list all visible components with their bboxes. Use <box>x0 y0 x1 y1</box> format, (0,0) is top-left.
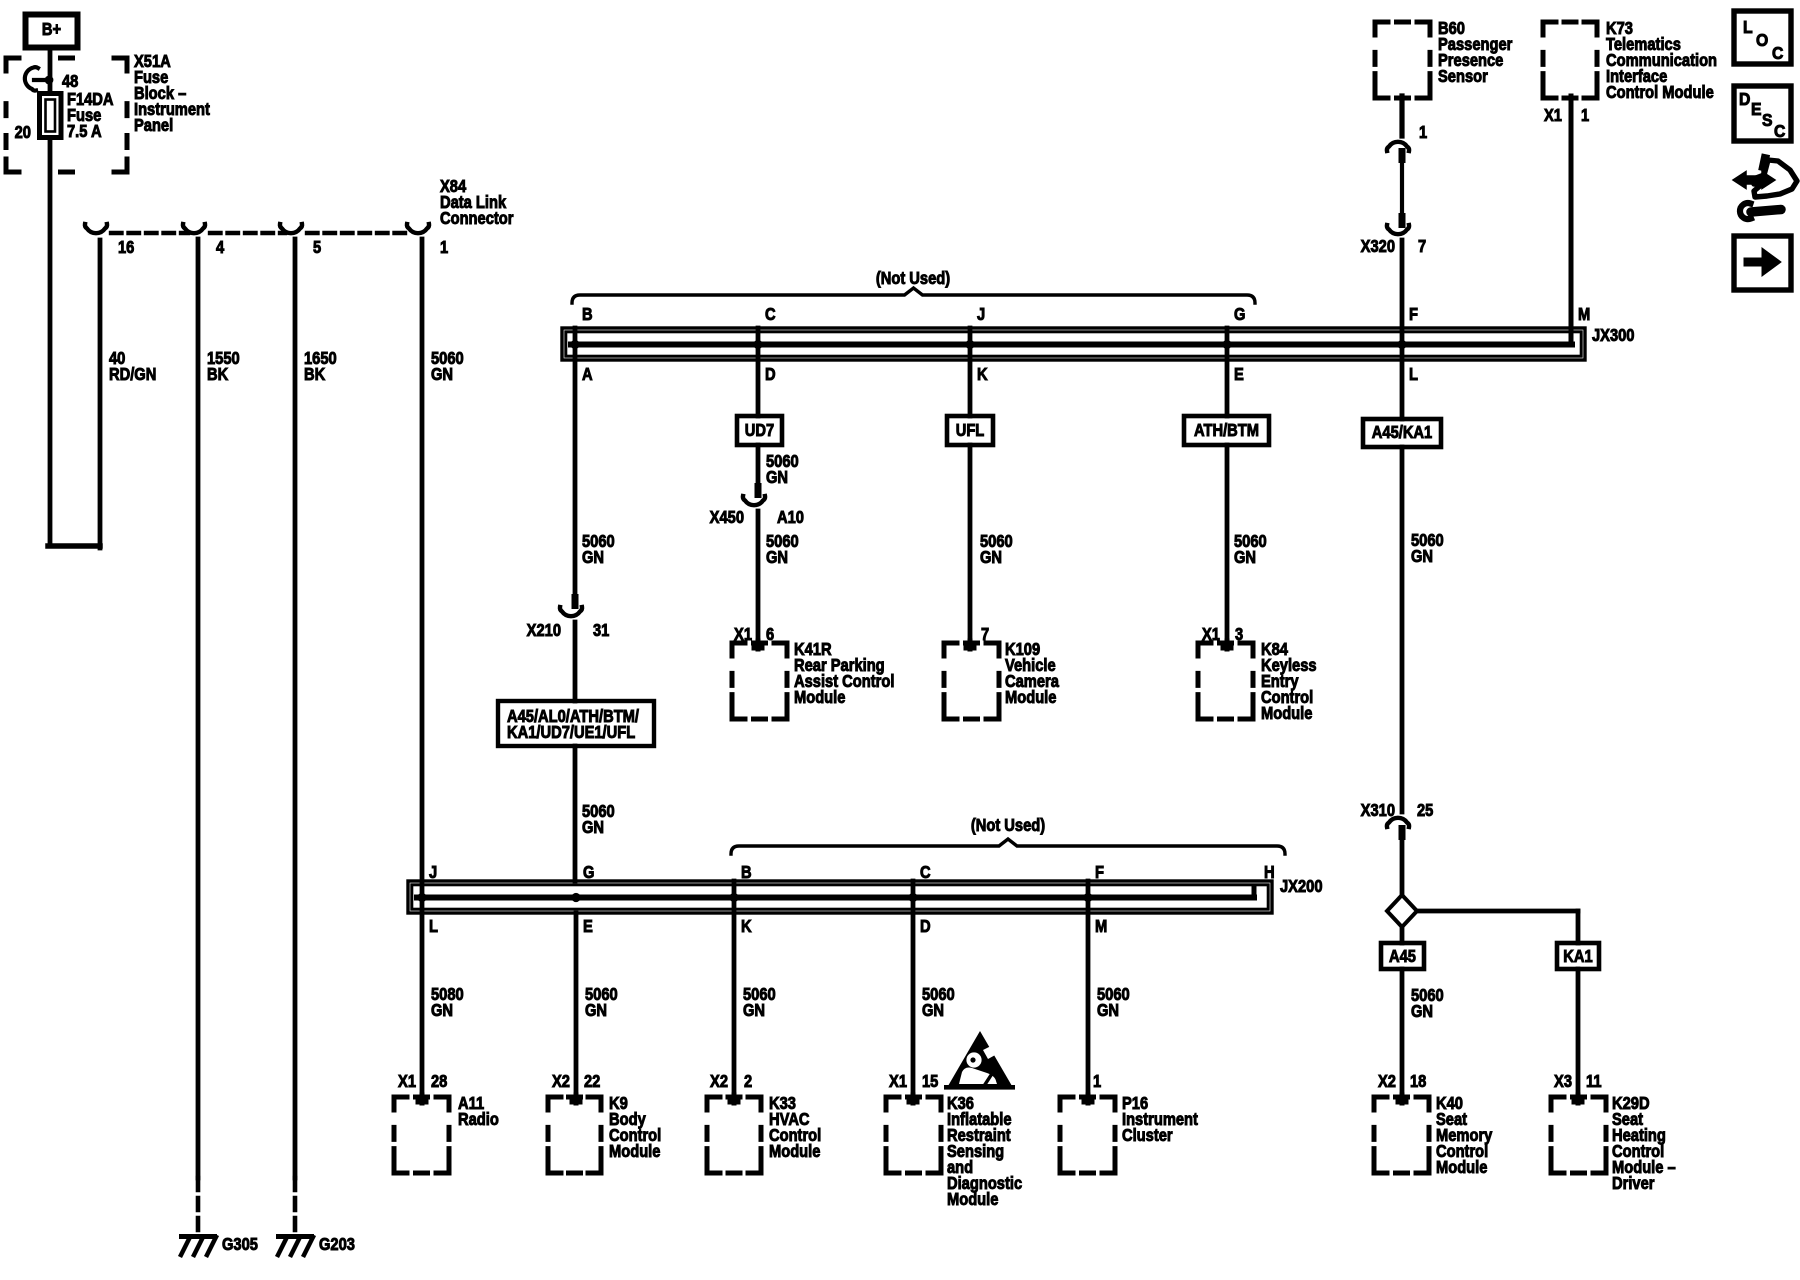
ground G203 <box>276 1234 355 1255</box>
svg-text:F: F <box>1409 305 1418 324</box>
svg-text:GN: GN <box>766 548 788 567</box>
svg-text:22: 22 <box>584 1072 600 1091</box>
svg-text:20: 20 <box>15 123 31 142</box>
module K36 Inflatable Restraint Sensing and Diagnostic Module <box>886 1094 1022 1209</box>
svg-text:X2: X2 <box>1378 1072 1396 1091</box>
power symbol B+ <box>26 15 78 48</box>
fuse F14DA 7.5 A <box>40 94 62 138</box>
svg-text:7: 7 <box>1418 237 1426 256</box>
svg-text:GN: GN <box>766 468 788 487</box>
connector cavity pin 5 (X84) <box>280 224 321 257</box>
svg-text:2: 2 <box>744 1072 752 1091</box>
svg-text:Sensor: Sensor <box>1438 67 1488 86</box>
svg-text:JX300: JX300 <box>1592 326 1635 345</box>
wire from JX300 K to splice UFL <box>968 328 973 416</box>
JX300 terminal letters top <box>582 305 1590 324</box>
svg-text:28: 28 <box>431 1072 447 1091</box>
icon DESC <box>1734 86 1791 141</box>
wire from B+ through fuse F14DA down and right to DLC feed <box>48 49 100 548</box>
svg-text:Module: Module <box>794 688 845 707</box>
svg-text:GN: GN <box>431 365 453 384</box>
svg-text:G305: G305 <box>222 1235 258 1254</box>
svg-text:X1: X1 <box>1544 106 1562 125</box>
svg-text:X1: X1 <box>398 1072 416 1091</box>
module K41R Rear Parking Assist Control Module <box>732 640 894 719</box>
svg-text:1: 1 <box>1419 123 1427 142</box>
junction on JX200 at x=422 <box>417 893 426 902</box>
svg-text:UD7: UD7 <box>745 421 774 440</box>
svg-text:Panel: Panel <box>134 116 173 135</box>
svg-text:G: G <box>583 863 594 882</box>
svg-text:Radio: Radio <box>458 1110 499 1129</box>
svg-text:16: 16 <box>118 238 134 257</box>
svg-text:X450: X450 <box>710 508 744 527</box>
icon LOC <box>1734 11 1791 64</box>
pin 20 label <box>15 123 31 142</box>
JX200 label <box>1280 877 1323 896</box>
svg-text:O: O <box>1756 30 1768 50</box>
svg-text:(Not Used): (Not Used) <box>876 269 950 288</box>
(Not Used) brace over JX300 <box>572 269 1255 303</box>
JX300 label <box>1592 326 1635 345</box>
X84 connector face (dashed) <box>111 231 412 235</box>
wire 5060 GN A45 to K40 <box>1378 969 1444 1100</box>
wire 40 RD/GN <box>109 349 156 384</box>
svg-text:A10: A10 <box>777 508 804 527</box>
svg-text:GN: GN <box>1411 1002 1433 1021</box>
svg-text:GN: GN <box>582 818 604 837</box>
wire 5080 GN JX200 L to A11 <box>398 985 464 1091</box>
wire from B60 pin 1 <box>1402 96 1427 142</box>
svg-text:GN: GN <box>1411 547 1433 566</box>
svg-text:1: 1 <box>440 238 448 257</box>
wire from JX300 E to splice ATH/BTM <box>1225 328 1230 416</box>
module B60 Passenger Presence Sensor <box>1375 19 1513 98</box>
JX200 terminal letters bottom <box>429 917 1107 936</box>
svg-text:ATH/BTM: ATH/BTM <box>1194 421 1259 440</box>
wire 5060 GN from X84 pin 1 to JX200 J and A11 radio <box>422 239 464 1100</box>
wire 5060 GN JX200 K to K33 <box>710 881 776 1100</box>
svg-text:F: F <box>1095 863 1104 882</box>
in-line connector X210 pin 31 <box>527 594 610 640</box>
svg-text:KA1: KA1 <box>1563 947 1592 966</box>
svg-text:M: M <box>1095 917 1107 936</box>
svg-text:25: 25 <box>1417 801 1433 820</box>
svg-text:RD/GN: RD/GN <box>109 365 156 384</box>
svg-text:31: 31 <box>593 621 609 640</box>
svg-text:Driver: Driver <box>1612 1174 1655 1193</box>
svg-text:B: B <box>741 863 752 882</box>
connector cavity pin 16 (X84) <box>85 224 134 257</box>
svg-text:Cluster: Cluster <box>1122 1126 1173 1145</box>
svg-text:Connector: Connector <box>440 209 514 228</box>
module K73 Telematics Communication Interface Control Module <box>1543 19 1717 102</box>
svg-text:UFL: UFL <box>956 421 985 440</box>
splice usage label A45/AL0/ATH/BTM/KA1/UD7/UE1/UFL <box>498 701 654 746</box>
svg-text:K: K <box>977 365 988 384</box>
svg-text:Control Module: Control Module <box>1606 83 1714 102</box>
connector cavity pin 1 (X84) <box>407 224 448 257</box>
junction on JX200 at x=576 <box>571 893 580 902</box>
svg-text:GN: GN <box>1234 548 1256 567</box>
wire 5060 GN from JX300 A through X210 to splice label <box>575 328 615 594</box>
svg-text:L: L <box>429 917 438 936</box>
wire 1650 BK to G203 <box>295 239 337 1232</box>
svg-text:L: L <box>1409 365 1418 384</box>
svg-text:Module: Module <box>947 1190 998 1209</box>
svg-text:D: D <box>765 365 776 384</box>
svg-text:K: K <box>741 917 752 936</box>
module K84 Keyless Entry Control Module <box>1198 640 1317 723</box>
svg-text:Module: Module <box>1005 688 1056 707</box>
svg-text:E: E <box>583 917 593 936</box>
wire 5060 GN from A45/KA1 to X310 <box>1402 447 1444 812</box>
svg-text:H: H <box>1264 863 1275 882</box>
splice ATH/BTM <box>1184 416 1269 445</box>
JX300 terminal letters bottom <box>582 365 1418 384</box>
svg-text:X2: X2 <box>552 1072 570 1091</box>
svg-text:5: 5 <box>313 238 321 257</box>
junction on JX200 at x=734 <box>729 893 738 902</box>
wire 5060 GN JX200 E to K9 <box>552 913 618 1100</box>
icon harness repair (arrows and wrench) <box>1733 153 1797 219</box>
fuse block X51A dashed outline <box>6 58 127 172</box>
wire 5060 GN JX200 M to P16 <box>1088 881 1130 1100</box>
svg-text:GN: GN <box>743 1001 765 1020</box>
svg-text:X1: X1 <box>889 1072 907 1091</box>
svg-text:L: L <box>1743 17 1753 37</box>
svg-text:4: 4 <box>216 238 224 257</box>
wire into splice label box <box>573 622 578 701</box>
wire to X320 <box>1400 163 1404 213</box>
wire diamond to A45 <box>1400 927 1405 943</box>
svg-text:M: M <box>1578 305 1590 324</box>
svg-text:E: E <box>1234 365 1244 384</box>
wire 5060 GN to K41R pin 6 <box>734 511 799 648</box>
connector terminal pin 48 (fuse block) <box>25 67 79 91</box>
svg-text:C: C <box>765 305 776 324</box>
svg-text:E: E <box>1751 99 1761 119</box>
wire KA1 to K29D <box>1554 969 1602 1100</box>
svg-text:BK: BK <box>207 365 229 384</box>
wire 5060 GN from splice label to JX200 G <box>575 746 615 881</box>
svg-text:C: C <box>1774 121 1785 141</box>
splice A45/KA1 <box>1363 419 1441 447</box>
svg-text:JX200: JX200 <box>1280 877 1323 896</box>
splice pack bus JX200 <box>408 881 1272 913</box>
svg-text:J: J <box>977 305 985 324</box>
splice UFL <box>947 416 993 445</box>
junction on JX300 at x=970 <box>965 340 974 349</box>
junction on JX200 at x=1088 <box>1083 893 1092 902</box>
wire 5060 GN to K84 pin 3 <box>1202 445 1267 648</box>
wire diamond to KA1 <box>1417 911 1578 943</box>
junction on JX300 at x=1227 <box>1222 340 1231 349</box>
svg-text:48: 48 <box>62 72 78 91</box>
svg-text:GN: GN <box>431 1001 453 1020</box>
splice A45 <box>1381 943 1424 969</box>
svg-text:Module: Module <box>1436 1158 1487 1177</box>
wire from X310 to splice diamond <box>1400 840 1405 896</box>
svg-text:18: 18 <box>1410 1072 1426 1091</box>
svg-text:G203: G203 <box>319 1235 355 1254</box>
svg-text:1: 1 <box>1093 1072 1101 1091</box>
JX200 terminal letters top <box>429 863 1275 882</box>
svg-text:B+: B+ <box>42 20 61 39</box>
module K29D Seat Heating Control Module - Driver <box>1551 1094 1676 1193</box>
connector cavity pin 4 (X84) <box>183 224 224 257</box>
svg-text:Module: Module <box>769 1142 820 1161</box>
ground G305 <box>179 1234 258 1255</box>
airbag caution symbol <box>944 1031 1015 1090</box>
svg-text:GN: GN <box>980 548 1002 567</box>
svg-text:B: B <box>582 305 593 324</box>
svg-text:A: A <box>582 365 593 384</box>
svg-text:GN: GN <box>582 548 604 567</box>
svg-text:11: 11 <box>1586 1072 1602 1091</box>
svg-text:GN: GN <box>922 1001 944 1020</box>
svg-text:7.5 A: 7.5 A <box>67 122 102 141</box>
in-line connector X450 pin A10 <box>710 483 804 527</box>
in-line connector X320 pin 7 <box>1361 213 1427 256</box>
svg-text:J: J <box>429 863 437 882</box>
wire from X320 to JX300 F <box>1400 240 1405 419</box>
junction on JX300 at x=1402 <box>1397 340 1406 349</box>
svg-text:D: D <box>920 917 931 936</box>
wire 1550 BK to G305 <box>198 239 240 1232</box>
wire from K73 X1 pin 1 to JX300 M <box>1544 96 1589 344</box>
svg-text:GN: GN <box>1097 1001 1119 1020</box>
svg-text:D: D <box>1739 89 1750 109</box>
icon forward arrow <box>1734 236 1791 290</box>
svg-text:KA1/UD7/UE1/UFL: KA1/UD7/UE1/UFL <box>507 723 635 742</box>
svg-text:(Not Used): (Not Used) <box>971 816 1045 835</box>
junction on JX300 at x=758 <box>753 340 762 349</box>
junction on JX300 at x=575 <box>570 340 579 349</box>
splice diamond <box>1387 895 1417 927</box>
svg-text:X3: X3 <box>1554 1072 1572 1091</box>
module A11 Radio <box>394 1094 499 1173</box>
label X51A Fuse Block - Instrument Panel <box>134 52 210 135</box>
(Not Used) brace over JX200 <box>731 816 1285 854</box>
svg-text:Module: Module <box>1261 704 1312 723</box>
module K9 Body Control Module <box>548 1094 661 1173</box>
module P16 Instrument Cluster <box>1060 1094 1198 1173</box>
splice UD7 <box>737 416 782 445</box>
svg-text:X320: X320 <box>1361 237 1395 256</box>
splice KA1 <box>1557 943 1599 969</box>
svg-text:BK: BK <box>304 365 326 384</box>
svg-text:C: C <box>920 863 931 882</box>
svg-text:X310: X310 <box>1361 801 1395 820</box>
connector B60 pin 1 (cup/pin) <box>1387 142 1409 163</box>
svg-text:Module: Module <box>609 1142 660 1161</box>
wire 5060 GN below UD7 <box>758 445 799 487</box>
module K40 Seat Memory Control Module <box>1374 1094 1492 1177</box>
svg-text:S: S <box>1762 110 1772 130</box>
svg-text:C: C <box>1772 43 1783 63</box>
in-line connector X310 pin 25 <box>1361 801 1434 840</box>
svg-text:X210: X210 <box>527 621 561 640</box>
svg-text:A45/KA1: A45/KA1 <box>1372 423 1432 442</box>
splice pack bus JX300 <box>562 328 1585 360</box>
svg-text:GN: GN <box>585 1001 607 1020</box>
svg-text:X2: X2 <box>710 1072 728 1091</box>
svg-text:A45: A45 <box>1389 947 1416 966</box>
connector X84 Data Link Connector label <box>440 177 514 228</box>
svg-text:15: 15 <box>922 1072 938 1091</box>
wire from JX300 D to splice UD7 <box>756 328 761 416</box>
junction on JX200 at x=913 <box>908 893 917 902</box>
wire 5060 GN to K109 pin 7 <box>970 445 1013 648</box>
wire 5060 GN JX200 D to K36 <box>889 881 955 1100</box>
svg-text:1: 1 <box>1581 106 1589 125</box>
module K109 Vehicle Camera Module <box>944 640 1060 719</box>
svg-text:G: G <box>1234 305 1245 324</box>
label F14DA Fuse 7.5 A <box>67 90 114 141</box>
module K33 HVAC Control Module <box>707 1094 821 1173</box>
